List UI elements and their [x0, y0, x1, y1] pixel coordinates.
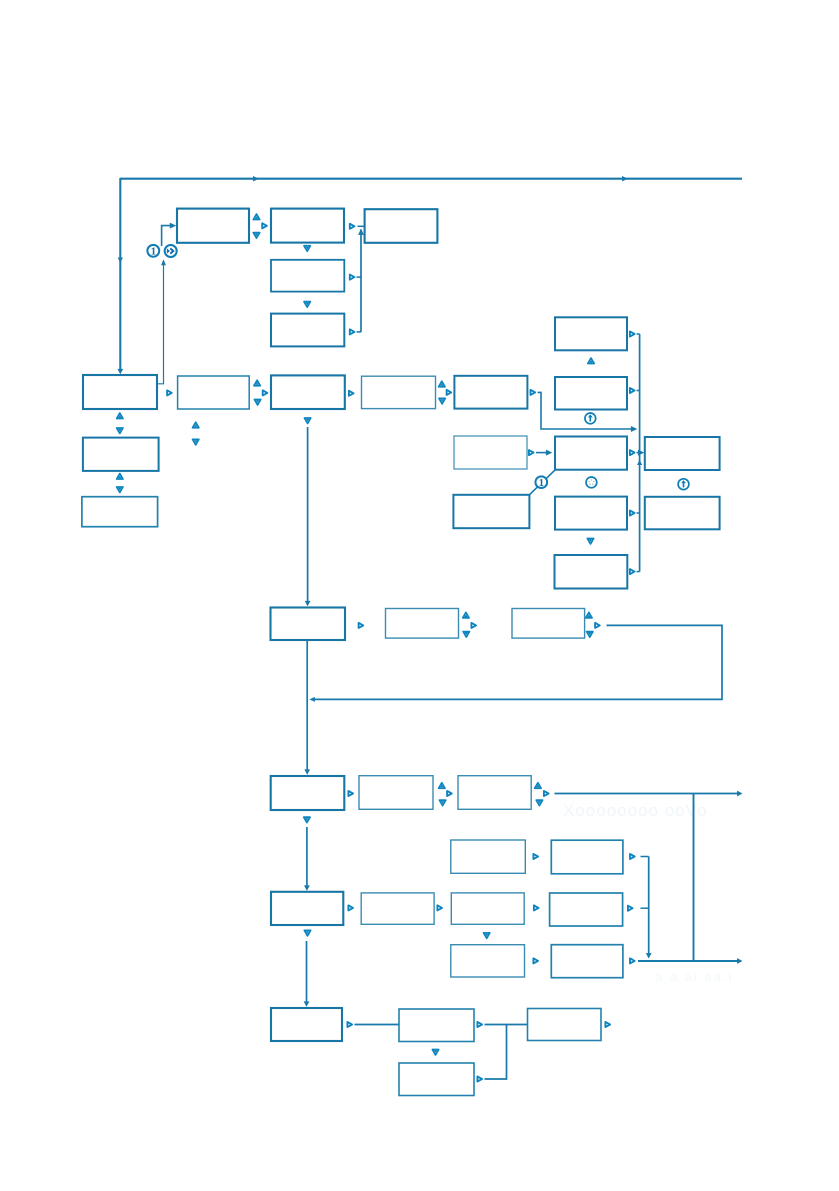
box E3 (mid-left of right cluster)	[454, 436, 527, 469]
wire branch down to box K4 play	[485, 1025, 507, 1080]
ok key right of box 1	[262, 223, 267, 228]
box T1 (right cluster top)	[555, 317, 627, 350]
box D (row2 fourth)	[362, 376, 436, 408]
down key right of box B	[254, 399, 260, 404]
ok key right of box M	[630, 450, 635, 455]
box G1 (row3 left)	[271, 608, 346, 641]
down key below box C	[304, 418, 310, 423]
arrowhead branch arrow into right collector	[631, 426, 637, 432]
ok key right of box H6	[534, 905, 539, 910]
up key below box B	[193, 422, 199, 427]
down key below box H6	[484, 933, 490, 938]
box H5 (row5 second)	[361, 893, 434, 924]
box T2 (right cluster)	[555, 377, 627, 410]
up key below box T1	[588, 358, 594, 363]
wire stub play M2	[637, 512, 640, 514]
ok key right of box A	[167, 390, 172, 395]
wire top cluster stub from box 5	[357, 331, 362, 333]
ok key right of box I1	[533, 854, 538, 859]
arrowhead top rail direction tick 1	[253, 176, 259, 181]
ok key right of box E3	[529, 450, 534, 455]
box 4 (top cluster middle)	[271, 260, 344, 292]
box H6 (row5 third)	[451, 893, 524, 924]
up key right of box 1	[253, 214, 259, 219]
wire top cluster stub from box 4	[357, 276, 362, 278]
ok key right of box 4	[350, 275, 355, 280]
wire stub play J2 to inner collector	[641, 907, 649, 909]
down key above box F lower	[117, 487, 123, 492]
down key right of box H3	[536, 800, 542, 805]
circled fast-forward key	[165, 245, 177, 257]
ok key right of box J2	[628, 906, 633, 911]
arrowhead arrow into box R1	[638, 450, 644, 456]
box J3 (row6 right)	[551, 945, 623, 978]
wire elbow into box 1	[162, 226, 173, 246]
box M2 (below M)	[555, 497, 627, 530]
down key right of box H2	[439, 800, 445, 805]
ok key right of box H5	[437, 905, 442, 910]
down key right of box D	[439, 398, 445, 403]
box E2 (row2 fifth)	[454, 376, 527, 409]
ok key right of box H1	[348, 791, 353, 796]
arrowhead left trunk mid tick	[118, 258, 123, 264]
wire vertical from box G1 to box H1	[306, 641, 308, 772]
svg-text:a a ai aa.i: a a ai aa.i	[655, 969, 733, 984]
box I1 (row4b left)	[451, 840, 526, 873]
box 1 (top row first)	[177, 209, 249, 243]
box M3 (right cluster bottom)	[555, 555, 628, 589]
box G2 (row3 mid)	[386, 609, 459, 639]
ok key right of box 5	[350, 329, 355, 334]
wire top horizontal rail	[120, 178, 742, 180]
up key below box A	[117, 413, 123, 418]
box H3 (row4 right)	[458, 776, 531, 810]
down key below box K2	[432, 1049, 438, 1054]
down key right of box G2	[463, 632, 469, 637]
box 5 (top cluster bottom)	[271, 314, 344, 347]
wire arrow line from box E3 to box M	[536, 452, 549, 454]
box M (right cluster center)	[555, 437, 627, 470]
ok key right of box 2	[350, 224, 355, 229]
up key right of box G2	[463, 612, 469, 617]
ok key right of box C	[349, 391, 354, 396]
box G3 (row3 right)	[512, 609, 585, 639]
arrowhead elbow arrow into box 1	[170, 223, 176, 229]
arrowhead arrow into box H1	[304, 769, 310, 774]
wire vertical from box H1 to box H4	[306, 827, 308, 888]
ok key right of box I2	[533, 958, 538, 963]
arrowhead left trunk into box A	[117, 369, 123, 374]
ok key right of box B	[263, 390, 268, 395]
up key right of box D	[439, 381, 445, 386]
up key right of box H2	[439, 783, 445, 788]
arrowhead return line arrow up	[161, 259, 166, 265]
box R2 (below R1)	[645, 497, 720, 530]
wire right collector vertical	[639, 334, 641, 572]
wire stub play M3	[637, 571, 640, 573]
ok key right of box M2	[630, 510, 635, 515]
wire vertical from box H4 to box K1	[306, 941, 308, 1004]
wire row4 long arrow east	[555, 793, 740, 795]
ok key right of box G1	[359, 623, 364, 628]
box R1 (right cluster east)	[645, 437, 720, 470]
wire line from box K1 play to box K2	[355, 1024, 399, 1026]
box A (row2 leftmost)	[83, 375, 157, 409]
ok key right of box K1	[347, 1022, 352, 1027]
box 3 (top row third)	[365, 209, 438, 243]
ok key right of box T1	[630, 331, 635, 336]
ok key right of box H2	[447, 791, 452, 796]
wire thin return line from box A to fast key	[158, 263, 164, 384]
wire inner collector vertical	[648, 857, 650, 954]
box K3 (bottom row third)	[528, 1009, 602, 1041]
box K2 (bottom row second)	[399, 1009, 474, 1042]
ok key right of box D	[447, 390, 452, 395]
box F (left column bottom)	[82, 497, 158, 527]
wire left vertical trunk	[119, 178, 121, 372]
down key below box B lower	[193, 439, 199, 444]
box 2 (top row second)	[271, 209, 344, 243]
wire stub play T1	[637, 333, 640, 335]
wire diagonal from box E4 to box M	[529, 470, 555, 495]
box E (left column mid)	[83, 438, 159, 471]
ok key right of box G2	[471, 623, 476, 628]
circled feed key below box T2	[585, 413, 596, 424]
up key right of box H3	[535, 783, 541, 788]
box B (row2 second)	[178, 376, 250, 409]
circled 1 key (top)	[147, 245, 159, 258]
wire top cluster collector vertical	[360, 230, 362, 332]
circled dial key below box M2	[586, 477, 597, 488]
ok key right of box G3	[595, 623, 600, 628]
ok key right of box K3	[605, 1022, 610, 1027]
down key below box H1	[304, 817, 310, 822]
wire top cluster collector stub from box 2	[358, 225, 365, 227]
box J1 (row4b right)	[551, 840, 623, 874]
arrowhead inner collector arrow down	[646, 953, 652, 958]
down key below box A	[117, 428, 123, 433]
wire branch from box E2 play	[538, 392, 635, 429]
ok key right of box K4	[477, 1076, 482, 1081]
box H1 (row4 left)	[271, 776, 345, 810]
arrowhead top rail direction tick 2	[622, 176, 628, 181]
arrowhead feedback loop arrow left	[309, 697, 315, 702]
wire row3 feedback loop	[311, 625, 722, 699]
wire crossing into box R1	[637, 452, 641, 454]
box J2 (row5 right)	[550, 893, 623, 926]
wire right branch vertical	[693, 794, 695, 962]
circled feed key below box R1	[678, 479, 689, 490]
down key below box H4	[304, 930, 310, 935]
wire stub play T2	[637, 390, 640, 392]
up key right of box G3	[586, 612, 592, 617]
down key right of box 1	[253, 233, 259, 238]
arrowhead top cluster collector arrow up	[358, 229, 364, 235]
up key right of box B	[254, 380, 260, 385]
ok key right of box E2	[531, 390, 536, 395]
ok key right of box M3	[630, 569, 635, 574]
arrowhead right collector up tick	[637, 460, 642, 466]
box K4 (below K2)	[399, 1063, 474, 1096]
wire line from box K2 play to box K3	[485, 1024, 528, 1026]
down key right of box G3	[587, 632, 593, 637]
wire stub play J1 to inner collector	[641, 856, 649, 858]
ok key right of box K2	[477, 1022, 482, 1027]
down key below box 2	[304, 246, 310, 251]
up key above box F	[117, 474, 123, 479]
arrowhead arrow into box H4	[304, 885, 310, 890]
arrowhead row4 long arrow head	[737, 791, 742, 797]
ok key right of box T2	[630, 388, 635, 393]
svg-text:Xoooooooo ooVo: Xoooooooo ooVo	[563, 801, 707, 820]
wire vertical from box C to box G1	[307, 427, 309, 603]
box H2 (row4 mid)	[359, 776, 433, 810]
ok key right of box H3	[544, 791, 549, 796]
ok key right of box J1	[630, 854, 635, 859]
wire bottom collector horizontal	[638, 960, 740, 962]
ok key right of box H4	[348, 905, 353, 910]
box H4 (row5 left)	[271, 892, 343, 925]
circled 1 key on diagonal	[535, 476, 547, 489]
box I2 (row6 left)	[451, 945, 525, 977]
ok key right of box J3	[630, 958, 635, 963]
arrowhead arrow into box M	[546, 450, 552, 456]
arrowhead bottom collector arrow head	[737, 958, 742, 964]
box K1 (bottom row left)	[271, 1008, 342, 1041]
box C (row2 third)	[271, 375, 345, 409]
arrowhead arrow into box K1	[304, 1001, 310, 1006]
arrowhead arrow into box G1	[305, 601, 311, 606]
box E4 (below E3)	[453, 495, 529, 528]
down key below box 4	[304, 302, 310, 307]
down key below box M2	[587, 538, 593, 543]
